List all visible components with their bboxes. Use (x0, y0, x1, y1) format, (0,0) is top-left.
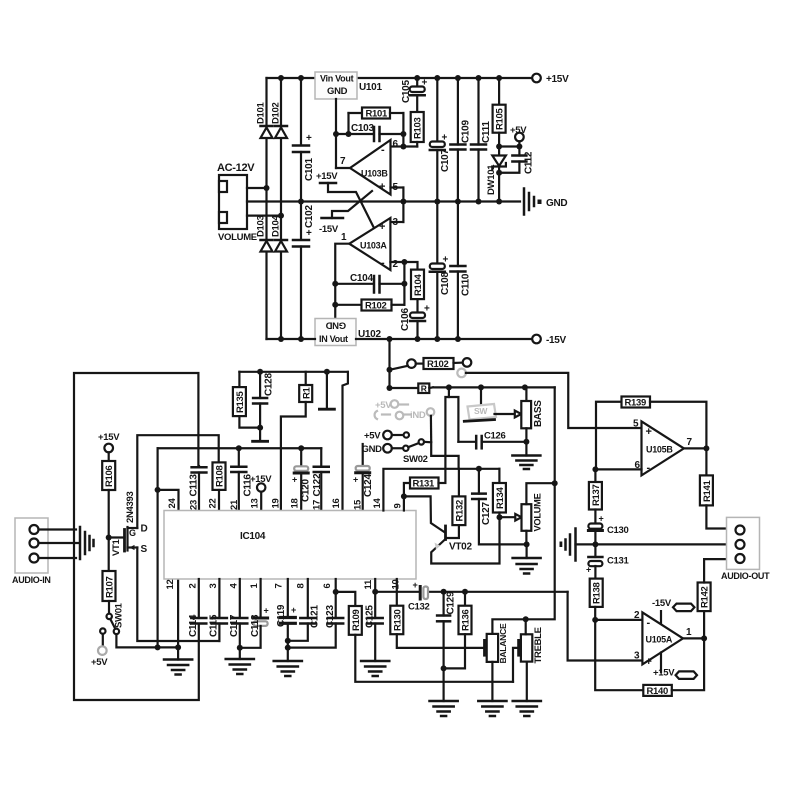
svg-text:C103: C103 (351, 123, 374, 134)
svg-text:5: 5 (633, 419, 639, 430)
capacitor C115 (209, 579, 227, 641)
resistor R134 (493, 469, 506, 517)
resistor R108 (213, 462, 226, 510)
node feedback right (400, 131, 406, 137)
bracket wire to R131 (445, 387, 449, 482)
wire wiper to VOLUME (500, 516, 516, 518)
svg-text:2: 2 (393, 259, 399, 270)
svg-text:+: + (646, 656, 652, 668)
capacitor C101 (293, 78, 315, 202)
svg-text:R131: R131 (413, 479, 436, 490)
svg-text:7: 7 (273, 584, 284, 589)
svg-text:D103: D103 (256, 215, 267, 237)
wire pin9 row (403, 496, 405, 510)
wire pin11 row to pin3 U105A (375, 591, 419, 593)
ground audio-in earth (80, 527, 94, 559)
svg-text:21: 21 (229, 499, 240, 510)
node C126/BASS (523, 439, 529, 445)
power flag +15V (U105A) (653, 653, 697, 679)
svg-text:4: 4 (228, 583, 239, 589)
diode D104 (271, 214, 288, 251)
svg-text:-15V: -15V (319, 224, 339, 235)
svg-text:AC-12V: AC-12V (217, 162, 255, 174)
svg-text:C119: C119 (276, 604, 287, 627)
resistor R (390, 383, 434, 393)
svg-text:C110: C110 (461, 273, 472, 296)
svg-text:C123: C123 (325, 605, 336, 628)
node VOLUME top tap (552, 480, 558, 486)
svg-text:C124: C124 (363, 474, 374, 497)
svg-text:BALANCE: BALANCE (498, 623, 508, 663)
svg-text:GND: GND (327, 86, 348, 97)
svg-text:+: + (586, 565, 591, 575)
capacitor C131 (586, 544, 630, 578)
capacitor C106 (400, 304, 430, 340)
svg-text:R104: R104 (413, 273, 424, 296)
node VOLUME bottom (524, 541, 530, 547)
svg-text:16: 16 (331, 499, 342, 509)
svg-text:C120: C120 (301, 479, 312, 502)
svg-text:C117: C117 (229, 614, 240, 637)
svg-text:C101: C101 (304, 158, 315, 181)
resistor R101 (349, 108, 404, 147)
ground stub bar (x327) (319, 372, 334, 409)
svg-text:R141: R141 (702, 479, 713, 502)
ground GND (top right) (524, 189, 567, 215)
svg-text:3: 3 (393, 217, 399, 228)
switch SW remnant (faded) (464, 387, 496, 421)
wire AC pin1 (247, 187, 267, 189)
wire ground bus (576, 543, 727, 545)
diode D102 (271, 102, 288, 138)
wire pin2 (595, 619, 642, 621)
resistor R109 (336, 592, 513, 682)
svg-text:+: + (306, 133, 312, 144)
svg-text:C102: C102 (304, 205, 315, 228)
wire VT1 source down (137, 548, 219, 642)
wire audio-in top (39, 528, 77, 530)
svg-text:C130: C130 (607, 525, 629, 536)
svg-text:R136: R136 (461, 609, 472, 631)
capacitor C109 (450, 78, 471, 202)
ground earth (VOLUME) (513, 544, 541, 573)
regulator U101 (315, 72, 382, 99)
node pin24 tap (155, 487, 161, 493)
svg-text:2: 2 (634, 610, 640, 621)
wire -15V tap down from top rail (388, 339, 390, 388)
svg-text:D102: D102 (271, 102, 282, 124)
svg-text:+: + (379, 221, 385, 233)
ground earth (TREBLE) (513, 701, 541, 716)
svg-text:G: G (129, 528, 136, 538)
potentiometer TREBLE (513, 619, 544, 701)
wire pin14 node row (383, 469, 499, 511)
svg-text:R103: R103 (413, 117, 424, 139)
node pin6 (333, 589, 339, 595)
svg-text:C121: C121 (310, 605, 321, 628)
resistor R130 (390, 606, 483, 648)
wire pin3 feed (568, 592, 643, 661)
capacitor C121 (288, 579, 321, 641)
ground earth#3 (274, 661, 302, 676)
capacitor C105 (401, 78, 428, 113)
svg-text:C107: C107 (440, 149, 451, 172)
svg-text:U103A: U103A (360, 241, 387, 251)
wire pin7 output (336, 167, 350, 169)
svg-text:3: 3 (634, 651, 640, 662)
connector AUDIO-OUT (721, 517, 770, 581)
svg-text:C131: C131 (607, 556, 630, 567)
svg-text:R107: R107 (105, 576, 116, 598)
svg-text:IC104: IC104 (240, 531, 266, 542)
node (278, 213, 284, 219)
power flag -15V (U105A) (652, 598, 694, 624)
wire pin24 (158, 490, 179, 511)
capacitor C122 (312, 448, 329, 510)
svg-text:VT02: VT02 (449, 542, 472, 553)
resistor R141 (700, 448, 727, 528)
svg-text:C106: C106 (400, 308, 411, 331)
svg-text:iND: iND (410, 410, 426, 421)
svg-text:+15V: +15V (546, 74, 569, 85)
wire pin6 (391, 145, 404, 147)
wire caps-top horizontal (wire B) (158, 447, 322, 449)
pin labels top (167, 498, 403, 510)
svg-text:GND: GND (362, 444, 383, 455)
wire SW02 common to R132 node (424, 442, 459, 469)
svg-text:23: 23 (189, 500, 200, 510)
ground earth (out bus) (560, 529, 576, 561)
wire caps-top vertical (x157) (157, 448, 159, 647)
IC104 (164, 511, 416, 580)
svg-text:D101: D101 (256, 101, 267, 124)
resistor R104 (411, 270, 424, 313)
svg-text:3: 3 (208, 584, 219, 589)
capacitor C124 (353, 444, 374, 511)
capacitor C114 (188, 579, 206, 637)
node C117/C118 (237, 645, 243, 651)
svg-text:+5V: +5V (364, 431, 381, 442)
svg-text:+: + (413, 580, 418, 590)
svg-text:-15V: -15V (652, 598, 672, 609)
resistor R1 (281, 372, 313, 511)
op-amp U105A (634, 610, 692, 668)
ground earth (C129) (430, 701, 458, 716)
svg-text:-15V: -15V (546, 335, 567, 346)
svg-text:C128: C128 (264, 373, 275, 396)
switch SW02 (403, 439, 428, 465)
capacitor C128 (253, 372, 274, 428)
wire AC pin2 to GND rail (247, 200, 520, 202)
svg-text:+: + (424, 304, 430, 315)
capacitor C117 (229, 579, 247, 659)
wire U101 GND pin down to feedback node (335, 99, 337, 168)
node C128 bottom (257, 425, 263, 431)
svg-text:C114: C114 (188, 614, 199, 637)
capacitor C126 (458, 431, 526, 449)
svg-text:C125: C125 (364, 605, 375, 628)
svg-text:C112: C112 (524, 151, 535, 174)
wire -15V bottom rail (267, 338, 316, 340)
capacitor C113 (189, 466, 207, 511)
svg-text:C115: C115 (209, 614, 220, 637)
wire pin5/pin3 to GND rail (391, 186, 404, 188)
svg-text:R106: R106 (104, 465, 115, 487)
wire wiper to BASS (495, 413, 515, 415)
svg-text:+: + (646, 426, 652, 438)
resistor R102 (top section) (335, 300, 404, 312)
svg-text:AUDIO-OUT: AUDIO-OUT (721, 571, 770, 581)
wire pin2 (390, 261, 404, 263)
wire pin10 (396, 579, 398, 606)
svg-text:SW01: SW01 (114, 602, 125, 628)
resistor R142 (698, 559, 726, 638)
svg-text:AUDIO-IN: AUDIO-IN (12, 575, 51, 585)
resistor R135 (233, 372, 260, 428)
resistor R105 (493, 78, 506, 156)
switch SW01 (100, 602, 124, 634)
svg-text:17: 17 (312, 500, 323, 510)
ground earth#1 (pin12) (164, 647, 192, 674)
capacitor C120 (292, 448, 312, 510)
svg-text:+: + (422, 78, 428, 89)
svg-text:+: + (442, 133, 448, 144)
svg-text:Vin Vout: Vin Vout (320, 74, 354, 84)
wire VT1 drain up and across to R108 (137, 435, 218, 528)
ground earth (BASS/C126) (512, 442, 540, 469)
wire output U105A (683, 637, 704, 639)
capacitor C129 (437, 591, 456, 701)
resistor R103 (403, 112, 423, 147)
capacitor C123 (288, 579, 343, 648)
svg-text:+: + (291, 605, 296, 615)
wire mid feed row (433, 386, 555, 388)
svg-text:C129: C129 (446, 591, 457, 614)
node top rail junctions (278, 75, 502, 81)
svg-text:R105: R105 (495, 107, 506, 130)
wire pin6 (595, 468, 641, 470)
node (496, 170, 502, 176)
wire C103 node row (336, 133, 374, 135)
wire R135/C128 top rail (239, 371, 348, 373)
svg-text:SW02: SW02 (403, 454, 428, 465)
svg-text:U103B: U103B (361, 169, 388, 179)
svg-text:1: 1 (341, 232, 347, 243)
svg-text:R101: R101 (366, 109, 389, 120)
svg-text:+15V: +15V (98, 432, 120, 443)
resistor R136 (444, 592, 472, 669)
wire D101 branch vertical (265, 78, 267, 339)
svg-text:+5V: +5V (91, 657, 108, 668)
terminal +15V (pin13) (250, 474, 272, 511)
resistor R107 (103, 571, 116, 614)
wire +15V top rail (267, 77, 533, 79)
svg-text:C104: C104 (350, 273, 373, 284)
svg-text:R134: R134 (495, 486, 506, 509)
node (264, 185, 270, 191)
node (333, 131, 339, 137)
svg-text:C126: C126 (484, 431, 506, 442)
svg-text:18: 18 (290, 499, 301, 509)
svg-text:24: 24 (167, 498, 178, 509)
regulator U102 (315, 319, 381, 346)
svg-text:R130: R130 (392, 609, 403, 631)
connector AC-12V (217, 162, 257, 243)
svg-text:SW: SW (474, 406, 488, 416)
svg-text:1: 1 (686, 627, 692, 638)
wire input feed vertical (x554.7) (526, 387, 555, 619)
svg-text:+: + (306, 228, 312, 239)
potentiometer BASS (521, 387, 544, 441)
capacitor C107 (430, 78, 451, 202)
svg-text:+: + (353, 475, 358, 485)
wire shield loop (big box) (74, 373, 199, 700)
svg-text:C122: C122 (312, 473, 323, 496)
power flag -15V (U103) (319, 191, 372, 235)
svg-text:D: D (141, 524, 148, 535)
svg-text:+5V: +5V (510, 125, 527, 136)
pin labels bottom (165, 579, 402, 589)
terminal -15V (532, 335, 541, 344)
ground earth#2 (226, 659, 254, 674)
svg-text:6: 6 (322, 584, 333, 589)
svg-text:2: 2 (187, 584, 198, 589)
svg-text:DW101: DW101 (486, 164, 497, 195)
diode D101 (256, 101, 273, 138)
resistor R139 (596, 397, 706, 470)
svg-text:U101: U101 (359, 82, 382, 93)
svg-text:GND: GND (546, 198, 567, 209)
svg-text:+: + (264, 606, 269, 616)
svg-text:R108: R108 (215, 465, 226, 487)
wire D102 branch vertical (280, 78, 282, 339)
op-amp U105B (633, 419, 693, 476)
svg-text:R102: R102 (365, 301, 387, 312)
capacitor C102 (293, 202, 315, 340)
svg-text:R135: R135 (235, 390, 246, 413)
svg-text:15: 15 (353, 499, 364, 510)
node R134/VT02/wiper (497, 514, 503, 520)
node pin11 (372, 589, 378, 595)
svg-text:VT1: VT1 (111, 538, 122, 556)
terminal +15V (532, 74, 541, 83)
node joints on ground row (155, 644, 161, 650)
svg-text:R: R (421, 383, 427, 393)
svg-text:C132: C132 (408, 602, 430, 613)
svg-text:+: + (379, 181, 385, 193)
node gate (106, 535, 112, 541)
svg-text:R1: R1 (302, 386, 313, 399)
capacitor C130 (588, 514, 628, 545)
capacitor C103 (351, 123, 380, 141)
svg-text:C118: C118 (250, 614, 261, 637)
capacitor C104 (335, 273, 404, 293)
resistor R132 (447, 469, 466, 538)
svg-text:VOLUME: VOLUME (218, 232, 257, 243)
resistor R131 (404, 478, 446, 497)
node C104 left / R102 left (332, 281, 338, 287)
svg-text:C127: C127 (481, 502, 492, 525)
svg-text:+5V: +5V (375, 400, 392, 411)
ground earth (BALANCE) (478, 701, 506, 716)
svg-text:R140: R140 (647, 686, 669, 697)
op-amp U103A (341, 217, 399, 270)
svg-text:8: 8 (295, 584, 306, 589)
pad faded (R102 jumper) (457, 369, 466, 378)
capacitor C108 (430, 202, 451, 340)
svg-text:R137: R137 (591, 484, 602, 506)
svg-text:14: 14 (372, 498, 383, 509)
svg-text:S: S (141, 544, 148, 555)
capacitor C112 (499, 147, 534, 175)
capacitor C110 (450, 202, 471, 340)
svg-text:C105: C105 (401, 80, 412, 103)
svg-text:IN Vout: IN Vout (319, 334, 348, 344)
svg-text:R142: R142 (700, 586, 711, 608)
svg-text:12: 12 (165, 580, 176, 590)
power flag +15V (U103) (316, 171, 374, 228)
wire to +5V (499, 145, 519, 147)
potentiometer BALANCE (485, 619, 526, 701)
svg-text:7: 7 (687, 437, 693, 448)
capacitor C119 (276, 579, 296, 661)
wire faded pad to SW02 common (430, 416, 433, 442)
capacitor C116 (231, 448, 253, 510)
capacitor C111 (471, 78, 492, 202)
svg-text:22: 22 (208, 499, 219, 509)
wire AC pin3 (247, 215, 281, 217)
svg-text:R109: R109 (351, 609, 362, 631)
resistor R140 (595, 620, 704, 697)
capacitor C125 (364, 579, 382, 661)
node R105/DW (496, 144, 502, 150)
node (346, 131, 352, 137)
resistor R102 (lower, with pads) (390, 358, 472, 370)
zener DW101 (486, 156, 506, 202)
ground earth#4 (361, 661, 389, 676)
svg-text:R139: R139 (625, 398, 647, 409)
transistor VT02 (431, 517, 499, 563)
transistor VT1 2N4393 (109, 492, 148, 556)
terminal +5V (SW01) (102, 634, 104, 647)
svg-text:GND: GND (325, 320, 346, 331)
svg-text:+: + (599, 514, 604, 524)
node GND rail junctions (298, 199, 502, 205)
svg-text:BASS: BASS (533, 400, 544, 427)
svg-text:9: 9 (392, 504, 403, 509)
svg-text:C113: C113 (189, 474, 200, 497)
diode D103 (256, 215, 273, 251)
bracket wire to C126 (449, 397, 459, 442)
wire audio-in bottom (39, 557, 77, 559)
wire pin12 (177, 579, 179, 647)
op-amp U103B (340, 139, 399, 195)
svg-text:R138: R138 (592, 582, 603, 604)
svg-text:19: 19 (271, 499, 282, 509)
faded row remnants (375, 400, 435, 421)
resistor R106 (102, 452, 115, 571)
svg-text:7: 7 (340, 156, 346, 167)
svg-text:U105A: U105A (646, 635, 673, 645)
svg-text:VOLUME: VOLUME (533, 493, 543, 531)
svg-text:R132: R132 (455, 500, 466, 522)
capacitor C132 (408, 580, 430, 613)
svg-text:11: 11 (363, 579, 374, 589)
resistor R138 (590, 579, 603, 620)
svg-text:TREBLE: TREBLE (533, 627, 544, 663)
svg-text:R102: R102 (427, 359, 449, 370)
svg-text:U105B: U105B (646, 445, 673, 455)
